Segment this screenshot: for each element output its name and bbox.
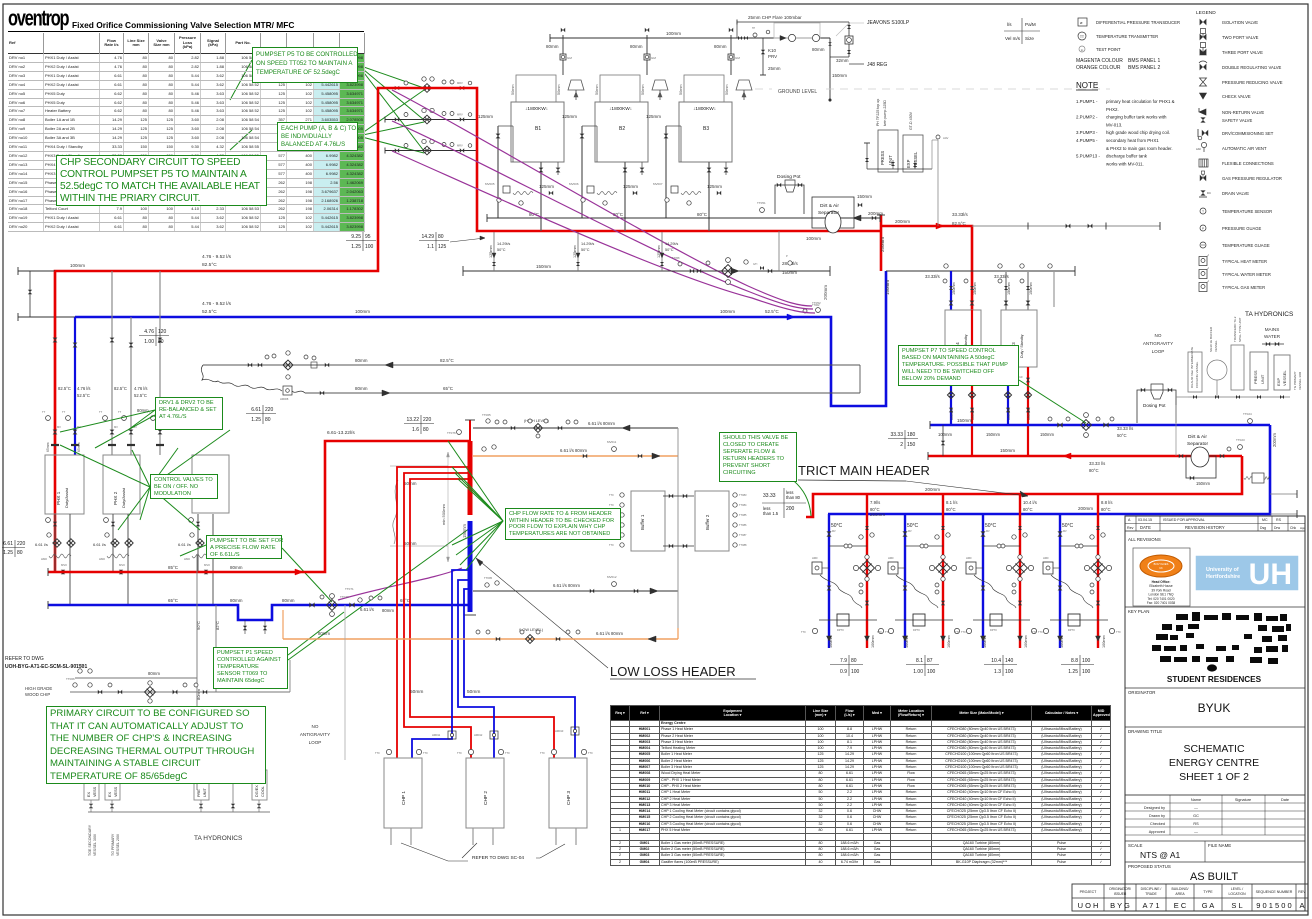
svg-text:200mm: 200mm xyxy=(1078,506,1093,511)
svg-text:100: 100 xyxy=(927,669,936,675)
svg-text:works with MV-011.: works with MV-011. xyxy=(1106,161,1144,166)
svg-text:50mm: 50mm xyxy=(511,84,515,95)
svg-text:9.25: 9.25 xyxy=(351,234,361,240)
svg-text:COOL: COOL xyxy=(261,786,265,797)
svg-text:TT0: TT0 xyxy=(505,751,510,755)
dosing pot (boiler circuit) xyxy=(775,185,804,214)
svg-text:14.29: 14.29 xyxy=(421,234,434,240)
svg-text:TT088: TT088 xyxy=(739,543,747,547)
pump cluster on secondary header xyxy=(678,262,682,266)
svg-text:150mm: 150mm xyxy=(986,432,1000,437)
svg-text:MRV: MRV xyxy=(457,81,463,85)
originator box xyxy=(1125,687,1305,689)
svg-text:TGE SECONDARY: TGE SECONDARY xyxy=(88,824,92,856)
legend: typical gas meter xyxy=(1199,283,1207,292)
svg-text:1.PUMP1 -: 1.PUMP1 - xyxy=(1076,99,1098,104)
svg-text:UNIT: UNIT xyxy=(1260,374,1265,384)
svg-text:University of: University of xyxy=(1206,567,1239,573)
svg-text:65mm: 65mm xyxy=(46,442,50,452)
flue cone xyxy=(736,80,752,90)
label: LOW LOSS HEADER xyxy=(476,558,608,668)
svg-text:150: 150 xyxy=(907,442,916,448)
wire: CHP return risers blue xyxy=(412,570,470,758)
wire: boiler flow pipe xyxy=(624,162,626,231)
wire: red 200mm drop xyxy=(806,456,1242,517)
branch heat meter xyxy=(888,562,898,574)
svg-text:A 7 1: A 7 1 xyxy=(1142,901,1159,910)
wire: primary flow red loop xyxy=(55,88,881,572)
wire: gas main 100mm xyxy=(550,37,830,39)
svg-text:DPT0: DPT0 xyxy=(990,628,997,632)
legend: pressure guage xyxy=(1200,225,1206,231)
svg-text:RS: RS xyxy=(1276,518,1282,522)
svg-text:33.33 l/s: 33.33 l/s xyxy=(1117,426,1133,431)
oventrop commissioning valve selection table xyxy=(8,9,364,11)
svg-text:Designed by: Designed by xyxy=(1144,806,1165,810)
svg-text:1.25: 1.25 xyxy=(351,244,361,250)
svg-text:A: A xyxy=(1128,518,1131,522)
note: pumpset P5 speed control xyxy=(252,47,358,83)
svg-text:SCALE: SCALE xyxy=(1128,843,1142,848)
svg-text:BYUK: BYUK xyxy=(1198,701,1231,715)
svg-text:50mm: 50mm xyxy=(725,84,729,95)
svg-text:HM0: HM0 xyxy=(41,557,47,561)
refer to dwg sc-04 xyxy=(401,843,468,861)
press unit (district) xyxy=(1250,352,1268,390)
svg-text:1.25: 1.25 xyxy=(3,550,13,556)
svg-text:ORIGINATOR/: ORIGINATOR/ xyxy=(1109,887,1131,891)
svg-text:Separator: Separator xyxy=(818,210,839,216)
svg-text:150mm: 150mm xyxy=(857,194,872,199)
legend: temperature transmitter xyxy=(1078,32,1086,40)
svg-text:13.22: 13.22 xyxy=(406,417,419,423)
svg-text:1.6: 1.6 xyxy=(412,427,419,433)
svg-text:TT058: TT058 xyxy=(672,256,680,260)
svg-text:A: A xyxy=(1299,901,1304,910)
svg-text:ANTIGRAVITY: ANTIGRAVITY xyxy=(1143,341,1173,346)
wire: grey stubs right xyxy=(1270,493,1297,495)
svg-text:100mm: 100mm xyxy=(70,263,85,268)
svg-text:50mm: 50mm xyxy=(595,84,599,95)
legend: differential pressure transducer xyxy=(1078,18,1087,26)
svg-text:4.76 - 9.52 l/s: 4.76 - 9.52 l/s xyxy=(202,254,232,260)
svg-text:6.61: 6.61 xyxy=(3,541,13,547)
boiler B2 xyxy=(595,102,648,162)
svg-text:150mm: 150mm xyxy=(462,524,467,538)
svg-text:primary heat circulation for P: primary heat circulation for PHX1 & xyxy=(1106,99,1175,104)
svg-text:Rev: Rev xyxy=(1127,526,1134,530)
svg-text:TT0: TT0 xyxy=(457,751,462,755)
svg-text:UH: UH xyxy=(1249,558,1292,591)
svg-text:P: P xyxy=(1202,226,1204,230)
svg-text:TT0: TT0 xyxy=(801,630,806,634)
svg-text:50°C: 50°C xyxy=(985,523,997,529)
svg-text:52.5°C: 52.5°C xyxy=(77,393,90,398)
svg-text:Duty/Assist: Duty/Assist xyxy=(121,487,126,508)
svg-text:6.61 l/s: 6.61 l/s xyxy=(93,542,106,547)
svg-text:6.61 l/s 80mm: 6.61 l/s 80mm xyxy=(588,421,615,426)
svg-text:TT0: TT0 xyxy=(375,751,380,755)
svg-text:125mm: 125mm xyxy=(539,184,554,189)
svg-text:Size: Size xyxy=(1025,36,1034,41)
legend: drv/commisioning set xyxy=(1202,130,1208,136)
svg-text:50°C: 50°C xyxy=(497,248,506,252)
svg-text:HIGH GRADE: HIGH GRADE xyxy=(25,686,52,691)
svg-text:125mm: 125mm xyxy=(707,184,722,189)
svg-text:TT070: TT070 xyxy=(340,595,349,599)
flow table 6.61/220 left xyxy=(14,540,16,557)
buffer vessel circle SG30 xyxy=(1207,360,1227,380)
wire: PHX4/3 risers to 150mm headers xyxy=(950,367,952,425)
legend: two port valve xyxy=(1200,34,1207,41)
svg-text:Vel m/s: Vel m/s xyxy=(1005,36,1021,41)
svg-text:6.61 l/s 80mm: 6.61 l/s 80mm xyxy=(553,583,580,588)
svg-text:150mm: 150mm xyxy=(1027,409,1031,420)
wire: boiler return pipe xyxy=(665,126,667,218)
svg-text:TEMPERATURE SENSOR: TEMPERATURE SENSOR xyxy=(1222,209,1272,214)
district branch 10.4 l/s xyxy=(982,514,984,648)
boiler secondary drops xyxy=(493,232,495,271)
svg-text:TT068: TT068 xyxy=(75,663,84,667)
wire: boiler gas feed xyxy=(646,35,648,75)
legend: typical water meter xyxy=(1199,270,1207,279)
svg-text:MV: MV xyxy=(832,530,836,533)
svg-text:125mm: 125mm xyxy=(562,114,577,119)
svg-text:HM012: HM012 xyxy=(474,733,483,737)
svg-text:REFER TO DWG: REFER TO DWG xyxy=(5,656,44,662)
transfero unit xyxy=(1231,345,1244,390)
wire: 250mm red drop xyxy=(880,215,883,271)
buffer vessel 2 xyxy=(695,491,729,551)
svg-text:B3: B3 xyxy=(703,126,709,132)
svg-text:BOUYGUES: BOUYGUES xyxy=(1154,562,1169,566)
wire: orange return 6.61 xyxy=(473,455,678,457)
svg-text:4.PUMP5 -: 4.PUMP5 - xyxy=(1076,138,1098,143)
svg-text:80mm: 80mm xyxy=(230,565,243,570)
svg-text:MV0: MV0 xyxy=(204,563,210,567)
svg-text:150mm: 150mm xyxy=(957,418,972,423)
svg-text:80°C: 80°C xyxy=(697,212,708,217)
svg-text:ISOLATION VALVE: ISOLATION VALVE xyxy=(1222,20,1258,25)
title block outer xyxy=(1125,516,1305,911)
svg-text:TT071: TT071 xyxy=(345,587,354,591)
svg-text:TT0: TT0 xyxy=(961,630,966,634)
flue cone xyxy=(568,80,584,90)
svg-text:ORIGINATOR: ORIGINATOR xyxy=(1128,690,1155,695)
legend: temperature sensor xyxy=(1200,208,1206,214)
svg-text:200mm: 200mm xyxy=(870,512,885,517)
svg-text:33.33: 33.33 xyxy=(763,493,776,499)
svg-text:AAV: AAV xyxy=(1196,147,1201,151)
svg-text:32mm: 32mm xyxy=(836,58,849,63)
svg-text:NTS @ A1: NTS @ A1 xyxy=(1140,850,1181,860)
wire: gas down to ground xyxy=(829,38,831,100)
gas meter JEAVONS S100LP xyxy=(848,22,850,57)
legend: isolation valve xyxy=(1200,19,1207,26)
svg-text:150mm: 150mm xyxy=(952,282,956,295)
svg-text:80: 80 xyxy=(265,417,271,423)
legend: drain valve xyxy=(1200,190,1205,195)
svg-text:P: P xyxy=(786,254,788,258)
svg-text:03.04.15: 03.04.15 xyxy=(1138,518,1152,522)
svg-text:LOOP: LOOP xyxy=(309,740,322,745)
svg-text:NOTE: NOTE xyxy=(1076,81,1098,90)
svg-text:TT0: TT0 xyxy=(588,751,593,755)
svg-text:52.5°C: 52.5°C xyxy=(134,393,147,398)
branch heat meter xyxy=(812,562,822,574)
svg-text:DATE: DATE xyxy=(1140,525,1151,530)
pump P3 on 82.5C line xyxy=(248,363,252,367)
branch pumpset xyxy=(860,561,875,576)
wire: boiler return pipe xyxy=(581,126,583,218)
svg-text:BMS PANEL 1: BMS PANEL 1 xyxy=(1128,58,1160,64)
svg-text:80°C: 80°C xyxy=(1023,507,1033,512)
svg-text:150mm: 150mm xyxy=(1007,282,1011,295)
flow table 4.76/120 xyxy=(155,327,157,346)
svg-text:TT083: TT083 xyxy=(739,493,747,497)
svg-text:50mm: 50mm xyxy=(467,689,480,695)
note: valve closed to create separate headers xyxy=(719,432,797,482)
svg-text:DIFFERENTIAL PRESSURE TRANSD: DIFFERENTIAL PRESSURE TRANSDUCER xyxy=(1096,20,1180,25)
svg-text:50°C: 50°C xyxy=(1117,433,1127,438)
svg-text:25mm: 25mm xyxy=(768,66,781,71)
svg-text:1.1: 1.1 xyxy=(427,244,434,250)
svg-text:33.33 l/s: 33.33 l/s xyxy=(1089,461,1105,466)
svg-text:MV: MV xyxy=(57,425,61,429)
svg-text:NO: NO xyxy=(1155,333,1162,338)
svg-text:DPT0: DPT0 xyxy=(1068,628,1075,632)
svg-text:50°C: 50°C xyxy=(907,523,919,529)
svg-text:100: 100 xyxy=(1082,669,1091,675)
svg-text:MV012: MV012 xyxy=(607,575,617,579)
svg-text:80: 80 xyxy=(438,234,444,240)
svg-text:HM0: HM0 xyxy=(1043,556,1049,560)
svg-text:MRV: MRV xyxy=(457,144,463,148)
svg-text:TT: TT xyxy=(1080,35,1084,39)
svg-text:150mm: 150mm xyxy=(1196,481,1210,486)
wire: high level connection xyxy=(473,427,678,429)
wire: 150mm blue header xyxy=(930,424,1270,427)
svg-text:140: 140 xyxy=(1005,658,1014,664)
wire: boiler return header 200mm xyxy=(487,217,880,219)
svg-text:TT0: TT0 xyxy=(1032,630,1037,634)
key plan building blobs xyxy=(1176,614,1188,620)
svg-text:CHP 1: CHP 1 xyxy=(401,791,407,805)
wire: 25mm CHP flare line xyxy=(737,22,849,38)
svg-text:TT: TT xyxy=(62,410,66,414)
svg-text:6.61 l/s: 6.61 l/s xyxy=(35,542,48,547)
heat meter HM012 xyxy=(490,731,498,739)
svg-text:80: 80 xyxy=(17,550,23,556)
wire: 85C red flow to LLH xyxy=(48,441,470,572)
svg-text:MV: MV xyxy=(986,530,990,533)
svg-text:TT: TT xyxy=(42,410,46,414)
svg-text:7.9: 7.9 xyxy=(840,658,847,664)
svg-text:MV011: MV011 xyxy=(607,440,617,444)
svg-text:AUTOMATIC AIR VENT: AUTOMATIC AIR VENT xyxy=(1222,146,1267,151)
svg-text:14.29l/s: 14.29l/s xyxy=(665,242,678,246)
svg-text:TT051: TT051 xyxy=(757,201,766,205)
svg-text:33.33l/s: 33.33l/s xyxy=(994,274,1009,279)
svg-text:Drw: Drw xyxy=(1274,526,1281,530)
branch heat meter xyxy=(966,562,976,574)
svg-text:PHX 2: PHX 2 xyxy=(113,491,118,505)
branch expansion coil xyxy=(974,575,1016,608)
svg-text:10.4 l/s: 10.4 l/s xyxy=(1023,500,1037,505)
svg-text:200: 200 xyxy=(786,506,795,512)
svg-text:tp: tp xyxy=(1081,48,1084,52)
svg-text:1.25: 1.25 xyxy=(251,417,261,423)
svg-text:LOW LOSS HEADER: LOW LOSS HEADER xyxy=(610,664,736,679)
svg-text:WOOD CHIP: WOOD CHIP xyxy=(25,692,50,697)
svg-text:SPILL TYPE UNIT: SPILL TYPE UNIT xyxy=(1238,317,1242,342)
svg-text:REFER TO DWG SC-04: REFER TO DWG SC-04 xyxy=(472,855,524,861)
flow table 14.29/80 xyxy=(435,232,437,251)
svg-text:ISSUER: ISSUER xyxy=(1114,892,1127,896)
svg-text:Fax: 020 7401 0038: Fax: 020 7401 0038 xyxy=(1147,601,1176,605)
green leader lines from pumpset notes to pumps xyxy=(358,65,424,88)
svg-text:150mm: 150mm xyxy=(1029,282,1033,295)
svg-text:80°C: 80°C xyxy=(946,507,956,512)
svg-text:Buffer 1: Buffer 1 xyxy=(640,514,645,530)
svg-text:82.5°C: 82.5°C xyxy=(202,262,217,268)
svg-text:150mm: 150mm xyxy=(832,73,847,78)
svg-text:NON-RETURN VALVE: NON-RETURN VALVE xyxy=(1222,110,1264,115)
svg-text:TEMPERATURE GUAGE: TEMPERATURE GUAGE xyxy=(1222,243,1270,248)
svg-text:CHP 2: CHP 2 xyxy=(483,791,489,805)
branch flow table xyxy=(1002,655,1004,676)
district branch 7.9l/s xyxy=(828,514,830,648)
svg-text:MV0: MV0 xyxy=(61,563,67,567)
svg-text:↓1800KW↓: ↓1800KW↓ xyxy=(525,106,548,112)
svg-text:1.00: 1.00 xyxy=(144,339,154,345)
svg-text:PROJECT: PROJECT xyxy=(1080,890,1098,894)
svg-text:6.61-13.22l/s: 6.61-13.22l/s xyxy=(327,430,355,436)
svg-text:Name: Name xyxy=(1191,798,1201,802)
svg-text:DC: DC xyxy=(1207,191,1211,195)
wire: drying loop return bend xyxy=(859,365,861,393)
svg-text:200mm: 200mm xyxy=(868,211,883,216)
svg-text:NO: NO xyxy=(312,724,319,729)
branch expansion coil xyxy=(820,575,862,608)
branch link line xyxy=(905,545,943,547)
gas valve group MV xyxy=(671,186,678,193)
svg-text:secondary heat from PHX1: secondary heat from PHX1 xyxy=(1106,138,1159,143)
DPT between mains xyxy=(1252,473,1264,483)
svg-text:87: 87 xyxy=(927,658,933,664)
svg-text:125mm: 125mm xyxy=(478,114,493,119)
svg-text:min 500mm: min 500mm xyxy=(441,503,446,525)
svg-text:HM0: HM0 xyxy=(184,557,190,561)
svg-text:6.61 l/s: 6.61 l/s xyxy=(360,607,374,612)
svg-text:TRICT MAIN HEADER: TRICT MAIN HEADER xyxy=(798,463,930,478)
wire: boiler gas feed xyxy=(730,35,732,75)
svg-text:80mm: 80mm xyxy=(196,688,201,700)
svg-text:80mm: 80mm xyxy=(382,608,394,613)
svg-text:JEAVONS S100LP: JEAVONS S100LP xyxy=(867,20,910,26)
svg-text:TYPICAL HEAT METER: TYPICAL HEAT METER xyxy=(1222,259,1267,264)
svg-text:2.PUMP2 -: 2.PUMP2 - xyxy=(1076,115,1098,120)
svg-text:UK: UK xyxy=(1159,566,1163,570)
svg-text:100mm: 100mm xyxy=(947,635,951,648)
branch expansion coil xyxy=(1051,575,1093,608)
svg-text:high grade wood chip drying co: high grade wood chip drying coil. xyxy=(1106,130,1170,135)
svg-text:UNIT: UNIT xyxy=(203,787,207,797)
dosing pot drop xyxy=(778,231,780,271)
svg-text:discharge buffer tank: discharge buffer tank xyxy=(1106,154,1148,159)
heat exchanger PHX 4 standby xyxy=(945,310,981,367)
heat exchanger PHX 1 Duty/Assist xyxy=(45,455,84,514)
svg-text:100mm: 100mm xyxy=(1024,635,1028,648)
svg-text:100mm: 100mm xyxy=(666,31,681,36)
flow table 13.22/220 xyxy=(420,415,422,434)
svg-text:TT085: TT085 xyxy=(739,513,747,517)
svg-text:100: 100 xyxy=(1082,658,1091,664)
branch DPT line xyxy=(819,619,877,621)
svg-text:E C: E C xyxy=(1174,901,1187,910)
svg-text:80mm: 80mm xyxy=(355,386,368,391)
svg-text:100mm: 100mm xyxy=(806,236,821,241)
svg-text:GT-D 450V: GT-D 450V xyxy=(909,111,913,130)
svg-text:charging buffer tank works wit: charging buffer tank works with xyxy=(1106,115,1167,120)
svg-text:100mm: 100mm xyxy=(1102,635,1106,648)
svg-text:4.76 l/s: 4.76 l/s xyxy=(134,386,148,391)
pumpset P7 on blue header xyxy=(1081,420,1092,431)
svg-text:BUILDING/: BUILDING/ xyxy=(1172,887,1189,891)
heat exchanger PHX 5 (wood drying) xyxy=(192,455,229,513)
svg-text:J48 REG: J48 REG xyxy=(867,62,887,68)
wire: wood drying 65C line xyxy=(305,392,860,394)
branch pumpset xyxy=(936,561,951,576)
svg-text:SAFETY VALVE: SAFETY VALVE xyxy=(1222,118,1252,123)
svg-text:TT0: TT0 xyxy=(955,630,960,634)
svg-text:33.33l/s: 33.33l/s xyxy=(925,274,940,279)
svg-text:Pa/M: Pa/M xyxy=(1025,22,1036,27)
legend: three port valve xyxy=(1200,49,1207,56)
branch DPT line xyxy=(895,619,953,621)
svg-text:RS: RS xyxy=(1193,822,1199,826)
svg-text:6.61 l/s 80mm: 6.61 l/s 80mm xyxy=(560,448,587,453)
svg-text:200mm: 200mm xyxy=(895,219,910,224)
svg-text:65°C: 65°C xyxy=(443,386,454,391)
svg-text:Dirt & Air: Dirt & Air xyxy=(1188,434,1207,440)
svg-text:KEY PLAN: KEY PLAN xyxy=(1128,609,1149,614)
branch link line xyxy=(983,545,1020,547)
svg-text:HM008: HM008 xyxy=(280,397,289,401)
legend: double regulating valve xyxy=(1200,64,1207,71)
svg-text:250mm: 250mm xyxy=(880,237,885,252)
svg-text:TEST POINT: TEST POINT xyxy=(1096,47,1121,52)
svg-text:COOLING VESSEL: COOLING VESSEL xyxy=(1195,361,1199,388)
note: each pump balanced xyxy=(277,122,358,151)
svg-text:TT0: TT0 xyxy=(609,503,614,507)
svg-text:TEMPERATURE TRANSMITTER: TEMPERATURE TRANSMITTER xyxy=(1096,34,1158,39)
wire: secondary header 26.58 l/s xyxy=(463,270,830,272)
svg-text:1.25: 1.25 xyxy=(1068,669,1078,675)
svg-text:Hertfordshire: Hertfordshire xyxy=(1206,574,1240,580)
svg-text:80mm: 80mm xyxy=(355,358,368,363)
svg-text:100: 100 xyxy=(851,669,860,675)
svg-text:100mm: 100mm xyxy=(720,309,735,314)
svg-text:125mm: 125mm xyxy=(623,184,638,189)
svg-text:TT087: TT087 xyxy=(739,533,747,537)
buffer vessel 1 xyxy=(631,491,665,551)
svg-text:Checked: Checked xyxy=(1150,822,1165,826)
svg-text:TG PRIMARY: TG PRIMARY xyxy=(1293,371,1297,390)
svg-text:GM: GM xyxy=(567,56,572,60)
svg-text:MAGENTA COLOUR: MAGENTA COLOUR xyxy=(1076,58,1123,64)
svg-text:DUAL60 6bar INTERMEDIATE: DUAL60 6bar INTERMEDIATE xyxy=(1190,347,1194,388)
